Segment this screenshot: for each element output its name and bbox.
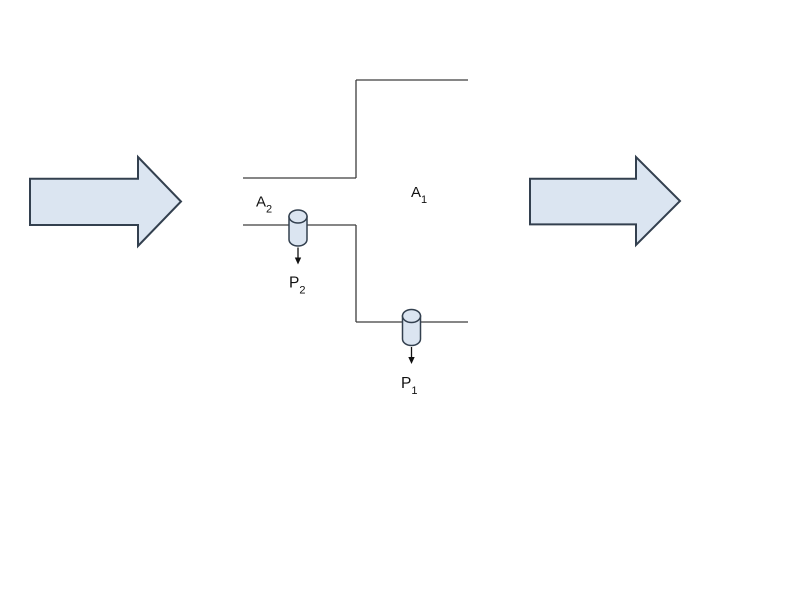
- flow arrow right: [530, 157, 680, 245]
- pipe wall: top step vertical: [355, 80, 357, 178]
- pipe wall: narrow section top: [243, 177, 356, 179]
- pipe wall: wide section top: [356, 79, 468, 81]
- pipe wall: bottom step vertical: [355, 225, 357, 322]
- arrow below P1 tap: [408, 347, 414, 364]
- pipe wall: narrow section bottom: [243, 224, 356, 226]
- arrow below P2 tap: [295, 248, 301, 265]
- pressure tap cylinder P1: [403, 310, 421, 346]
- pipe wall: wide section bottom: [356, 321, 468, 323]
- pressure tap cylinder P2: [289, 210, 307, 246]
- flow arrow left: [30, 157, 181, 246]
